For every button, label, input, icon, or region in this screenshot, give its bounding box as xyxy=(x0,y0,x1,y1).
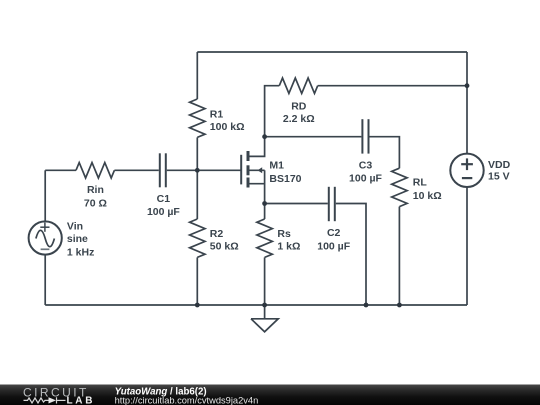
ground xyxy=(264,305,266,319)
logo resistor-diode glyph xyxy=(24,397,66,403)
svg-text:VDD: VDD xyxy=(488,159,511,171)
wire gate node to M1 gate xyxy=(197,169,241,171)
svg-text:M1: M1 xyxy=(269,159,284,171)
svg-text:sine: sine xyxy=(67,233,88,245)
svg-text:R2: R2 xyxy=(210,228,224,240)
transistor M1 drain lead xyxy=(248,137,265,157)
node drain M1 xyxy=(262,134,267,139)
svg-text:100 kΩ: 100 kΩ xyxy=(210,121,245,133)
svg-text:100 µF: 100 µF xyxy=(317,240,350,252)
wire top rail xyxy=(197,51,467,53)
svg-text:Rs: Rs xyxy=(277,228,291,240)
VDD minus sign xyxy=(462,177,472,179)
svg-text:Vin: Vin xyxy=(67,220,83,232)
node RD right rail xyxy=(465,83,470,88)
wire M1 body/source to source node xyxy=(264,170,266,203)
wire C2 to bottom rail xyxy=(336,204,366,306)
svg-text:Rin: Rin xyxy=(87,184,104,196)
node R2 bottom xyxy=(195,303,200,308)
svg-text:http://circuitlab.com/cvtwds9j: http://circuitlab.com/cvtwds9ja2v4n xyxy=(115,396,259,405)
svg-text:RD: RD xyxy=(291,100,307,112)
svg-text:15 V: 15 V xyxy=(488,171,510,183)
resistor R1 xyxy=(196,52,198,99)
Vin plus sign xyxy=(40,223,49,232)
wire bottom rail xyxy=(45,304,467,306)
voltage source VDD circle xyxy=(450,154,483,187)
resistor R2 xyxy=(196,170,198,219)
capacitor C2 xyxy=(329,187,335,221)
node gate (R1/R2/C1) xyxy=(195,168,200,173)
svg-text:70 Ω: 70 Ω xyxy=(84,197,107,209)
wire source node to C2 xyxy=(265,203,328,205)
VDD plus sign xyxy=(461,158,473,170)
transistor M1 gate bar xyxy=(240,155,242,185)
capacitor C1 xyxy=(160,153,166,187)
node RL bottom xyxy=(397,303,402,308)
svg-text:LAB: LAB xyxy=(67,395,96,405)
resistor Rs xyxy=(264,204,266,220)
transistor M1 source lead xyxy=(248,183,265,185)
transistor M1 arrow xyxy=(258,167,263,173)
resistor RL xyxy=(392,168,407,206)
svg-text:C1: C1 xyxy=(157,193,171,205)
svg-text:1 kHz: 1 kHz xyxy=(67,246,94,258)
wire left rail lower (Vin to bottom) xyxy=(44,255,46,306)
svg-text:BS170: BS170 xyxy=(269,173,301,185)
transistor M1 body lead xyxy=(248,169,265,171)
node Rs ground bottom xyxy=(262,303,267,308)
svg-text:100 µF: 100 µF xyxy=(349,172,382,184)
wire C3 to RL branch xyxy=(370,137,400,169)
wire gate row left (left rail to Rin) xyxy=(45,169,76,171)
resistor Rin xyxy=(76,163,114,178)
svg-text:10 kΩ: 10 kΩ xyxy=(413,190,442,202)
wire C1 to gate node xyxy=(167,169,198,171)
Vin minus sign xyxy=(41,248,50,250)
wire left rail upper (gate row to Vin) xyxy=(44,170,46,221)
svg-text:1 kΩ: 1 kΩ xyxy=(277,241,300,253)
transistor M1 channel bars xyxy=(247,151,250,188)
wire Rin to C1 xyxy=(114,169,158,171)
svg-text:C3: C3 xyxy=(359,160,373,172)
voltage source Vin circle xyxy=(29,221,62,254)
wire RD to right rail xyxy=(318,85,467,87)
wire drain node to C3 xyxy=(265,136,362,138)
wire right rail lower xyxy=(466,187,468,305)
Vin sine wave xyxy=(36,230,55,246)
svg-text:2.2 kΩ: 2.2 kΩ xyxy=(283,113,315,125)
svg-text:C2: C2 xyxy=(327,227,341,239)
svg-text:R1: R1 xyxy=(210,108,224,120)
wire right rail upper xyxy=(466,52,468,154)
node source M1 xyxy=(262,201,267,206)
capacitor C3 xyxy=(362,119,368,153)
svg-text:100 µF: 100 µF xyxy=(147,206,180,218)
svg-text:RL: RL xyxy=(413,177,428,189)
node C2 bottom xyxy=(364,303,369,308)
resistor RD xyxy=(279,78,317,93)
svg-text:50 kΩ: 50 kΩ xyxy=(210,241,239,253)
wire drain node to RD xyxy=(265,86,280,137)
